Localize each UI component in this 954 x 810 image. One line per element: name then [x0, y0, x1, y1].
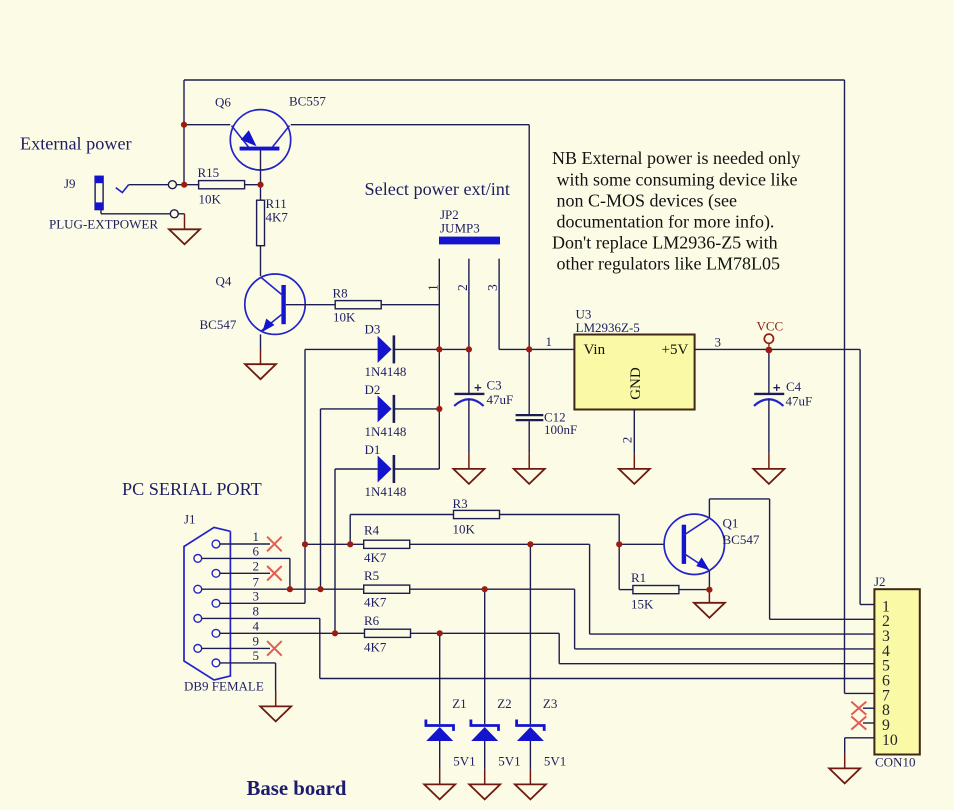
- zener diode Z1 5V1: [426, 720, 454, 731]
- ground at J1 pin5: [275, 691, 277, 707]
- svg-text:R6: R6: [364, 613, 380, 628]
- svg-text:Don't replace LM2936-Z5 with: Don't replace LM2936-Z5 with: [552, 233, 778, 253]
- svg-text:Q4: Q4: [216, 274, 232, 289]
- wire Z2 to ground: [484, 741, 486, 769]
- svg-text:1N4148: 1N4148: [365, 484, 407, 499]
- wire VCC row to right leg: [769, 348, 860, 350]
- wire R6 row right to J2 pin5: [411, 632, 560, 634]
- wire Z2 leg down: [484, 589, 486, 724]
- no-connect X on J2 pin9: [851, 716, 866, 729]
- wire D1 anode leg down to R6 row: [334, 469, 336, 633]
- resistor R5: [364, 585, 410, 593]
- svg-text:5V1: 5V1: [544, 754, 566, 769]
- resistor R6: [365, 629, 411, 637]
- regulator U3 LM2936Z-5 box: [574, 335, 694, 410]
- transistor Q6 BC557 PNP: [230, 110, 290, 170]
- svg-text:10K: 10K: [333, 310, 356, 325]
- wire diode cathode chain vertical x=439: [438, 349, 440, 469]
- transistor Q1 BC547 NPN: [664, 514, 724, 574]
- capacitor C12 100nF: [516, 414, 544, 416]
- svg-text:1: 1: [253, 529, 260, 544]
- ground at J2 pin10: [844, 753, 846, 769]
- svg-text:Z3: Z3: [543, 696, 557, 711]
- svg-text:Q1: Q1: [723, 516, 739, 531]
- svg-text:documentation for more info).: documentation for more info).: [557, 212, 775, 233]
- wire J2 pin10 to ground: [845, 737, 875, 739]
- junction Z2/R5 row: [482, 586, 488, 592]
- ground at J9: [184, 214, 186, 230]
- wire J9 sleeve pin to ground: [178, 213, 184, 215]
- VCC symbol: [764, 334, 773, 343]
- junction R15/R11/Q6-base: [257, 182, 263, 188]
- svg-text:1: 1: [425, 284, 440, 291]
- ground at U3 GND: [633, 453, 635, 469]
- wire Q1 base from R3/R1 junction: [619, 543, 664, 545]
- svg-text:R3: R3: [453, 496, 468, 511]
- wire top-rail right leg down to J2 pin7: [844, 80, 846, 693]
- connector J2 CON10 box: [874, 589, 919, 754]
- svg-text:J9: J9: [64, 176, 76, 191]
- wire J1 pin1 stub: [220, 543, 270, 545]
- wire top rail: [184, 79, 845, 81]
- J1 pin 3: [212, 599, 220, 607]
- jumper JP2 JUMP3 body: [439, 237, 500, 245]
- wire Q4 emitter down: [260, 334, 262, 349]
- junction D3 row x=439: [436, 346, 442, 352]
- svg-text:10K: 10K: [453, 522, 476, 537]
- capacitor C4 47uF polarized: [754, 393, 784, 395]
- resistor R15: [199, 181, 245, 189]
- wire junction to R11: [260, 185, 262, 201]
- svg-text:4K7: 4K7: [364, 550, 387, 565]
- wire D2 anode leg down to R5 row: [320, 409, 322, 589]
- wire Q6 collector row to regulator input leg: [291, 124, 530, 126]
- zener diode Z3 5V1: [517, 720, 545, 731]
- svg-text:47uF: 47uF: [487, 392, 514, 407]
- ground at Q1 emitter: [708, 590, 710, 603]
- transistor Q4 BC547 NPN: [245, 274, 305, 334]
- wire U3 output pin3 to VCC: [695, 348, 769, 350]
- ground at Z3: [529, 769, 531, 785]
- wire J9 tip pin to R15: [176, 184, 199, 186]
- svg-text:R8: R8: [333, 286, 348, 301]
- resistor R4: [364, 540, 410, 548]
- wire Vin node to U3 pin1: [529, 348, 574, 350]
- JP2 pin 3 leg: [498, 259, 500, 350]
- wire J1 pin5 to ground: [220, 662, 276, 664]
- capacitor C3 47uF polarized: [468, 349, 470, 393]
- svg-text:+5V: +5V: [662, 342, 689, 358]
- junction D1/R6: [332, 630, 338, 636]
- resistor R3: [454, 510, 500, 518]
- no-connect X on J1 pin9: [267, 641, 282, 656]
- svg-text:VCC: VCC: [757, 319, 784, 334]
- svg-text:Z1: Z1: [452, 696, 466, 711]
- junction D2 row: [436, 406, 442, 412]
- junction R3 left: [347, 541, 353, 547]
- wire R15 to junction: [245, 184, 261, 186]
- svg-text:8: 8: [253, 604, 260, 619]
- wire Vin node down to C12: [528, 349, 530, 414]
- resistor R11 vertical: [257, 200, 265, 246]
- svg-text:PLUG-EXTPOWER: PLUG-EXTPOWER: [49, 217, 158, 232]
- svg-text:7: 7: [253, 574, 260, 589]
- svg-text:External power: External power: [20, 134, 132, 154]
- svg-text:9: 9: [253, 634, 260, 649]
- wire D3 anode row: [305, 348, 378, 350]
- J2 pin8 stub: [863, 707, 874, 709]
- J9 tip switch contact check-mark: [116, 185, 129, 193]
- wire R8 to jumper pin1 leg: [381, 304, 439, 306]
- wire Q1 collector to J2 pin2: [708, 499, 710, 518]
- svg-text:R1: R1: [631, 570, 646, 585]
- junction C3/jumper pin2: [466, 346, 472, 352]
- svg-text:4: 4: [253, 619, 260, 634]
- svg-text:J2: J2: [874, 574, 886, 589]
- wire U3 GND pin 2 down: [633, 410, 635, 454]
- svg-text:R4: R4: [364, 523, 380, 538]
- J1 pin 8: [194, 615, 202, 623]
- ground at Q4: [260, 349, 262, 365]
- junction Vin node: [526, 346, 532, 352]
- wire Z1 leg down: [439, 633, 441, 724]
- junction top-rail/Q6: [181, 122, 187, 128]
- J1 pin 1: [212, 540, 220, 548]
- junction Z3/R4 row: [527, 541, 533, 547]
- wire R1 to Q1 emitter node: [679, 589, 710, 591]
- svg-text:2: 2: [619, 437, 634, 444]
- svg-text:NB External power is needed on: NB External power is needed only: [552, 148, 800, 168]
- wire VCC node down to C4: [768, 349, 770, 393]
- junction Q1 emitter/R1: [706, 587, 712, 593]
- connector J9 PLUG-EXTPOWER jack body: [95, 176, 103, 209]
- svg-text:C3: C3: [487, 378, 502, 393]
- junction R3/R1/Q1 base: [616, 541, 622, 547]
- wire J1 pin4 to R6: [220, 632, 365, 634]
- diode D2 1N4148: [378, 395, 392, 422]
- svg-text:5V1: 5V1: [498, 754, 520, 769]
- wire D2 anode row: [321, 408, 378, 410]
- wire R11 to Q4 collector: [260, 246, 262, 276]
- svg-text:DB9 FEMALE: DB9 FEMALE: [184, 679, 264, 694]
- connector J1 DB9 outline: [184, 527, 230, 680]
- ground at Z2: [484, 769, 486, 785]
- svg-text:BC547: BC547: [723, 532, 760, 547]
- J1 pin 4: [212, 629, 220, 637]
- ground at C3: [468, 453, 470, 469]
- svg-text:J1: J1: [184, 512, 196, 527]
- J1 pin 9: [194, 645, 202, 653]
- junction J9/R15: [181, 182, 187, 188]
- wire Z3 leg down: [529, 544, 531, 724]
- svg-text:R5: R5: [364, 568, 379, 583]
- wire J1 pin9 stub: [202, 647, 270, 649]
- wire VCC leg down to J2 pin1: [859, 349, 861, 604]
- wire Q6-collector vertical leg x=529 down to Vin node: [528, 125, 530, 350]
- svg-text:47uF: 47uF: [786, 394, 813, 409]
- svg-text:4K7: 4K7: [364, 640, 387, 655]
- svg-text:10: 10: [882, 732, 898, 749]
- JP2 pin 2 leg: [468, 259, 470, 350]
- no-connect X on J2 pin8: [851, 702, 866, 715]
- diode D3 1N4148: [378, 336, 392, 363]
- ground at Z1: [439, 769, 441, 785]
- no-connect X on J1 pin1: [267, 537, 282, 552]
- svg-text:Z2: Z2: [497, 696, 511, 711]
- svg-text:C4: C4: [786, 379, 802, 394]
- svg-text:other regulators like LM78L05: other regulators like LM78L05: [557, 254, 780, 274]
- svg-text:15K: 15K: [631, 597, 654, 612]
- svg-text:5: 5: [253, 648, 260, 663]
- wire R3 right leg: [500, 514, 620, 516]
- svg-text:PC SERIAL PORT: PC SERIAL PORT: [122, 479, 262, 499]
- JP2 pin 1 leg: [438, 259, 440, 350]
- svg-text:GND: GND: [628, 367, 644, 400]
- svg-text:BC547: BC547: [200, 317, 237, 332]
- wire J9 sleeve: [100, 210, 102, 214]
- wire Z1 to ground: [439, 741, 441, 769]
- J9 sleeve pin: [170, 210, 178, 218]
- svg-text:D3: D3: [365, 322, 381, 337]
- junction pin6/R5: [287, 586, 293, 592]
- svg-text:6: 6: [253, 544, 260, 559]
- J1 pin 2: [212, 569, 220, 577]
- wire D1 anode row: [335, 468, 378, 470]
- svg-text:10K: 10K: [199, 192, 222, 207]
- svg-text:4K7: 4K7: [266, 210, 289, 225]
- svg-text:Vin: Vin: [584, 342, 606, 358]
- J1 pin 7: [194, 585, 202, 593]
- resistor R1: [633, 586, 679, 594]
- J2 pin9 stub: [863, 722, 874, 724]
- svg-text:D2: D2: [365, 382, 381, 397]
- junction D2/R5: [317, 586, 323, 592]
- J1 pin 6: [194, 555, 202, 563]
- wire top-rail left leg to Q6 emitter node: [183, 80, 185, 185]
- plus sign of C4: [773, 384, 780, 391]
- wire D3 anode leg down to DB9 pin3 node: [304, 349, 306, 544]
- wire J1 pin3 up to R4 node: [220, 602, 305, 604]
- wire R4 row right to J2 pin3: [410, 543, 590, 545]
- svg-text:100nF: 100nF: [544, 422, 577, 437]
- wire J1 pin7 to R5: [202, 588, 364, 590]
- wire J1 pin6 to R5 node: [202, 557, 290, 559]
- wire Q6 base down to R15/R11 junction: [260, 151, 262, 185]
- wire R5 row right to J2 pin4: [410, 588, 575, 590]
- svg-text:3: 3: [715, 335, 722, 350]
- wire R3 left leg: [350, 514, 453, 516]
- svg-text:JUMP3: JUMP3: [440, 221, 480, 236]
- wire R4 row left: [305, 543, 364, 545]
- svg-text:Q6: Q6: [215, 95, 231, 110]
- wire J9 tip to pin: [129, 184, 169, 186]
- no-connect X on J1 pin2: [267, 566, 282, 581]
- svg-text:non C-MOS devices (see: non C-MOS devices (see: [557, 190, 737, 211]
- svg-text:3: 3: [485, 284, 500, 291]
- wire D2 cathode to vertical: [394, 408, 439, 410]
- svg-text:2: 2: [455, 284, 470, 291]
- J9 tip pin: [168, 181, 176, 189]
- svg-text:Select power ext/int: Select power ext/int: [365, 179, 510, 199]
- ground at C12: [528, 453, 530, 469]
- resistor R8: [335, 301, 381, 309]
- svg-text:CON10: CON10: [875, 755, 915, 770]
- svg-text:3: 3: [253, 589, 260, 604]
- junction D3/pin3/R4: [302, 541, 308, 547]
- svg-text:D1: D1: [365, 442, 381, 457]
- svg-text:Base board: Base board: [247, 777, 347, 800]
- wire Q1 emitter down: [708, 571, 710, 590]
- svg-text:2: 2: [253, 559, 260, 574]
- junction Z1/R6 row: [437, 630, 443, 636]
- J1 pin 5: [212, 659, 220, 667]
- svg-text:5V1: 5V1: [453, 754, 475, 769]
- svg-text:BC557: BC557: [289, 94, 326, 109]
- svg-text:R15: R15: [198, 165, 220, 180]
- ground at C4: [768, 453, 770, 469]
- wire Z3 to ground: [529, 741, 531, 769]
- wire Q4 base to R8: [286, 304, 335, 306]
- svg-text:1: 1: [546, 334, 553, 349]
- svg-text:1N4148: 1N4148: [365, 424, 407, 439]
- wire R3/R1 junction down to R1: [618, 544, 620, 589]
- svg-text:with some consuming device lik: with some consuming device like: [557, 169, 798, 189]
- svg-text:1N4148: 1N4148: [365, 364, 407, 379]
- svg-text:LM2936Z-5: LM2936Z-5: [576, 320, 640, 335]
- plus sign of C3: [475, 384, 482, 391]
- wire J1 pin8 reroute to J2 pin6: [202, 617, 320, 619]
- wire Q6 emitter row: [184, 124, 230, 126]
- zener diode Z2 5V1: [471, 720, 499, 731]
- wire J1 pin2 stub: [220, 572, 270, 574]
- wire D3 cathode row with junctions: [394, 348, 469, 350]
- wire D1 cathode to vertical: [394, 468, 439, 470]
- svg-text:4K7: 4K7: [364, 595, 387, 610]
- diode D1 1N4148: [378, 456, 392, 483]
- junction VCC: [766, 347, 773, 354]
